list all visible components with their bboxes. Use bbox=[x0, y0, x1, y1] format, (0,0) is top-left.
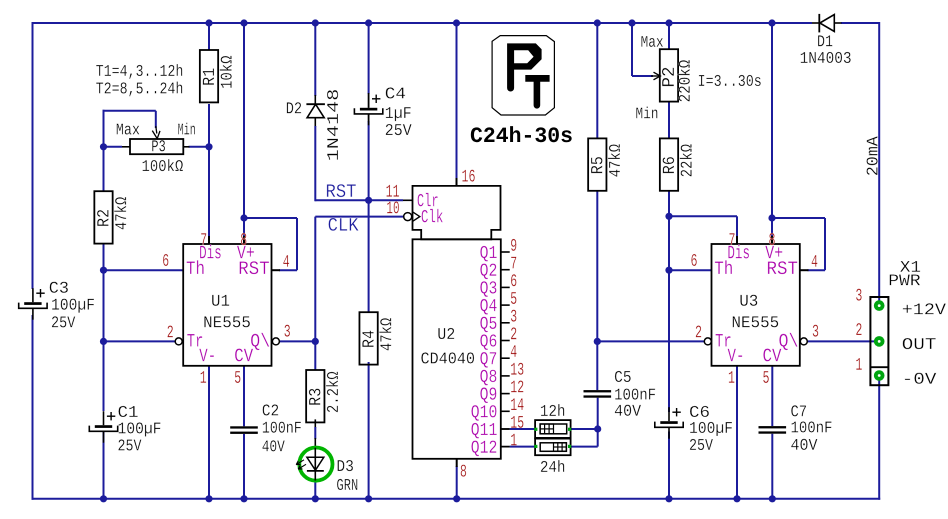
U2 pin number 15 bbox=[511, 416, 523, 428]
U3 pin number 7 bbox=[729, 233, 734, 245]
junction bbox=[594, 338, 601, 345]
U2 pin stub Q10 bbox=[501, 410, 510, 412]
U1 pin number 4 bbox=[283, 255, 289, 267]
U2 pin number 5 bbox=[511, 292, 517, 304]
U2 pin number 10 bbox=[387, 201, 399, 213]
U2 pin number 14 bbox=[511, 398, 524, 410]
X1 pin number 3 bbox=[856, 289, 862, 301]
LED D3 green ring bbox=[299, 448, 332, 481]
potentiometer P2 body bbox=[660, 49, 678, 101]
C2 voltage label bbox=[262, 440, 284, 451]
pin stub U1 pin8 bbox=[243, 236, 245, 244]
wire U3 pin8 V+ from top bus bbox=[771, 23, 773, 236]
wire +12V top bus right section after D1 bbox=[841, 22, 879, 24]
U1 pin label RST bbox=[240, 261, 269, 274]
capacitor C4 polarized symbol bbox=[368, 94, 370, 108]
resistor R3 name label bbox=[309, 389, 321, 405]
U2 pin label Q7 bbox=[480, 352, 496, 368]
wire C6 to 0V bus bbox=[668, 432, 670, 499]
U2 Clk wedge bbox=[413, 212, 420, 222]
U2 pin label Q12 bbox=[471, 441, 496, 457]
U2 pin number 13 bbox=[511, 363, 523, 375]
wire V+ to RST jog of U3 bbox=[772, 217, 825, 219]
label +12V bbox=[903, 303, 946, 314]
pin stub U2 Q11 pin15 bbox=[501, 428, 510, 430]
LED D3 arrows bbox=[296, 460, 304, 465]
capacitor C6 polarized symbol bbox=[668, 407, 670, 421]
diode D2 1N4148 symbol bbox=[306, 103, 325, 105]
U1 pin number 6 bbox=[163, 254, 168, 266]
wire R4 bottom to 0V bus bbox=[368, 362, 370, 499]
label 12h bbox=[541, 404, 564, 416]
counter U2 CD4040 top section bbox=[413, 186, 501, 239]
U3 pin label RST bbox=[768, 261, 797, 274]
wire R2 bottom to Th/Tr nodes and C1 bbox=[103, 244, 105, 412]
counter U2 CD4040 main body bbox=[413, 239, 501, 458]
label OUT bbox=[903, 338, 936, 349]
logo octagon frame bbox=[492, 36, 554, 115]
junction bbox=[594, 425, 601, 432]
wire P2 bottom to R6 bbox=[668, 102, 670, 139]
junction bbox=[205, 143, 212, 150]
wire U3 Th branch bbox=[669, 269, 712, 271]
U2 pin label Q10 bbox=[471, 405, 496, 421]
wire D1 left stub bbox=[812, 22, 819, 24]
D1 value label 1N4003 bbox=[801, 52, 851, 63]
C4 voltage label bbox=[386, 124, 412, 135]
U3 pin number 5 bbox=[763, 371, 769, 383]
U2 pin stub Q6 bbox=[501, 340, 510, 342]
C1 name label bbox=[118, 406, 137, 417]
U3 pin number 4 bbox=[812, 255, 818, 267]
C6 value label bbox=[690, 422, 732, 436]
P3 wiper arrow bbox=[156, 126, 157, 134]
note I=3..30s bbox=[699, 75, 761, 86]
capacitor C5 symbol bbox=[584, 390, 612, 392]
LED D3 wire through bbox=[314, 448, 316, 481]
resistor R2 value label bbox=[114, 197, 126, 229]
label -0V bbox=[905, 373, 936, 384]
U2 pin stub Q9 bbox=[501, 393, 510, 395]
U3 pin number 8 bbox=[769, 233, 774, 245]
pin stub U2 Clr pin11 bbox=[403, 199, 413, 201]
X1 name label bbox=[900, 261, 920, 272]
X1 pin number 1 bbox=[856, 358, 862, 370]
U2 pin stub Q7 bbox=[501, 357, 510, 359]
U2 pin label Q2 bbox=[480, 264, 496, 280]
U1 value label bbox=[204, 316, 250, 327]
jumper JP1 outer bottom cell bbox=[535, 439, 571, 456]
X1 value label PWR bbox=[890, 274, 921, 285]
C4 name label bbox=[386, 87, 405, 98]
U1 pin number 1 bbox=[201, 371, 207, 383]
capacitor C3 polarized symbol bbox=[32, 288, 34, 302]
junction bbox=[240, 214, 247, 221]
note T2 timing bbox=[96, 81, 182, 96]
wire 0V left rail below C3 bbox=[32, 315, 34, 500]
C5 voltage label bbox=[615, 405, 641, 416]
wire U1 pin5 to C2 bbox=[243, 366, 245, 427]
resistor R5 body bbox=[588, 138, 606, 190]
note T1 timing bbox=[96, 64, 182, 79]
wire C1 to 0V bus bbox=[103, 432, 105, 499]
resistor R1 body bbox=[200, 50, 218, 102]
D2 name label bbox=[287, 102, 301, 113]
wire C5 to jumper node bbox=[597, 398, 599, 429]
pin stub U3 RST pin4 bbox=[800, 269, 809, 271]
U1 pin label V+ bbox=[237, 246, 254, 259]
U1 pin number 8 bbox=[241, 233, 246, 245]
P3 Min label bbox=[178, 123, 195, 135]
junction bbox=[100, 267, 107, 274]
resistor R2 body bbox=[94, 191, 112, 243]
U2 pin stub Q2 bbox=[501, 269, 510, 271]
D2 value label 1N4148 rotated bbox=[327, 90, 338, 160]
C6 name label bbox=[690, 406, 709, 417]
C7 voltage label bbox=[791, 439, 817, 450]
wire V+ to RST jog of U1 bbox=[244, 217, 297, 219]
C5 value label bbox=[615, 388, 655, 399]
capacitor C2 symbol bbox=[230, 426, 258, 428]
wire D1 right stub bbox=[834, 22, 841, 24]
pin stub D2 anode bbox=[314, 118, 316, 127]
junction bbox=[769, 495, 776, 502]
pin stub U3 pin7 bbox=[736, 236, 738, 244]
junction bbox=[100, 143, 107, 150]
U2 pin number 4 bbox=[511, 345, 517, 357]
U2 pin number 12 bbox=[511, 380, 523, 392]
capacitor C7 symbol bbox=[759, 426, 787, 428]
wire +12V top bus left section bbox=[33, 22, 813, 24]
D3 value label GRN bbox=[337, 479, 357, 490]
U2 name label bbox=[438, 328, 454, 339]
U3 pin label CV bbox=[763, 349, 781, 362]
U2 pin number 16 bbox=[462, 170, 474, 182]
wire P2 top from bus bbox=[668, 23, 670, 49]
U2 pin stub Q11 bbox=[501, 428, 510, 430]
logo text C24h-30s bbox=[471, 126, 572, 142]
U2 pin number 9 bbox=[511, 239, 516, 251]
U2 pin label Q9 bbox=[480, 387, 496, 403]
jumper JP1 top inner bbox=[540, 424, 567, 434]
U2 pin number 1 bbox=[511, 434, 517, 446]
wire Q11 to jumper JP1 bbox=[510, 428, 535, 430]
connector X1 pad 2 bbox=[874, 336, 885, 347]
wire U3 Dis branch bbox=[669, 215, 737, 217]
U3 pin label Q\ bbox=[779, 333, 797, 350]
U2 pin label Q4 bbox=[480, 299, 496, 315]
P2 name label bbox=[662, 68, 674, 86]
resistor R1 name label bbox=[203, 68, 214, 84]
junction bbox=[665, 267, 672, 274]
junction bbox=[240, 19, 247, 26]
wire Tr node to C5 bbox=[596, 341, 598, 390]
U1 Q inversion circle bbox=[272, 338, 279, 345]
jumper JP1 12h/24h outer top cell bbox=[535, 420, 571, 438]
junction bbox=[240, 495, 247, 502]
resistor R6 name label bbox=[663, 157, 675, 173]
U3 pin label V- bbox=[728, 349, 743, 362]
note 20mA rotated bbox=[866, 136, 877, 175]
U3 pin number 1 bbox=[729, 371, 735, 383]
U1 Tr inversion circle bbox=[175, 338, 182, 345]
wire U3 pin1 to 0V bus bbox=[736, 366, 738, 499]
P2 Min label bbox=[636, 107, 657, 119]
pin stub U1 pin7 bbox=[208, 236, 210, 244]
C7 name label bbox=[791, 405, 806, 416]
wire CLK net vertical bbox=[314, 217, 316, 342]
U2 Clk inversion circle bbox=[404, 213, 412, 221]
wire Q12 to jumper JP1 bbox=[510, 446, 535, 448]
wire U3 Q output to X1 OUT bbox=[807, 340, 874, 342]
wire C2 to 0V bus bbox=[243, 434, 245, 499]
wire RST net to R4 bbox=[368, 200, 370, 312]
U3 pin label Tr bbox=[716, 334, 731, 347]
pin stub U2 pin16 bbox=[456, 178, 458, 186]
wire R2 top from P3 node bbox=[103, 147, 105, 191]
U1 pin number 7 bbox=[201, 233, 206, 245]
U2 pin label Q3 bbox=[480, 281, 496, 297]
wire U1 pin8 V+ from top bus bbox=[243, 23, 245, 236]
junction bbox=[628, 19, 635, 26]
wire jumper Q12 side to C5 node bbox=[571, 446, 598, 448]
wire U1 Q output to node bbox=[279, 340, 315, 342]
wire node to U1 pin7 bbox=[208, 147, 210, 236]
wire RST net horizontal bbox=[315, 199, 403, 201]
U2 pin stub Q12 bbox=[501, 446, 510, 448]
resistor R1 value label bbox=[220, 56, 232, 88]
C1 voltage label bbox=[118, 439, 141, 450]
wire D2 anode to RST net bbox=[314, 126, 316, 201]
pin stub P3 left bbox=[122, 146, 130, 148]
pin stub U3 pin8 bbox=[771, 236, 773, 244]
connector X1 pad 1 bbox=[874, 370, 885, 381]
pin stub U2 pin8 bbox=[456, 459, 458, 467]
LED D3 cathode bar bbox=[307, 470, 324, 472]
junction bbox=[453, 19, 460, 26]
resistor R5 name label bbox=[591, 157, 602, 173]
pin stub D2 cathode bbox=[314, 95, 316, 104]
U2 pin number 7 bbox=[511, 257, 516, 269]
logo letter T bbox=[525, 75, 549, 109]
resistor R6 body bbox=[660, 138, 678, 190]
wire R6 bottom down the R6 chain bbox=[668, 191, 670, 412]
U2 pin number 3 bbox=[511, 310, 517, 322]
U2 pin label Clr bbox=[418, 193, 438, 206]
connector X1 divider bbox=[870, 366, 888, 368]
U1 pin label V- bbox=[199, 349, 214, 362]
wire U1 Tr bbox=[104, 340, 176, 342]
wire 0V bottom bus bbox=[32, 498, 881, 500]
U1 pin label Th bbox=[187, 260, 204, 274]
U2 pin number 8 bbox=[461, 465, 466, 477]
U1 pin label Q\ bbox=[251, 333, 269, 350]
wire U3 pin5 to C7 bbox=[771, 366, 773, 426]
U2 pin label Q5 bbox=[480, 317, 496, 333]
P3 Max label bbox=[117, 124, 140, 135]
P2 value label 220k bbox=[678, 60, 690, 101]
wire jumper to C5 node bbox=[571, 428, 598, 430]
U3 Q inversion circle bbox=[800, 338, 807, 345]
U3 name label bbox=[740, 295, 757, 306]
pin stub U2 Q12 pin1 bbox=[501, 446, 510, 448]
label 24h bbox=[541, 460, 564, 472]
U3 pin label Th bbox=[715, 260, 732, 274]
U3 pin label V+ bbox=[765, 246, 782, 259]
U3 pin number 6 bbox=[691, 254, 696, 266]
U2 pin label Q11 bbox=[471, 423, 496, 439]
U2 pin stub Q3 bbox=[501, 286, 510, 288]
wire D2 top from bus bbox=[314, 23, 316, 96]
resistor R3 body bbox=[306, 370, 324, 422]
junction bbox=[365, 495, 372, 502]
U1 pin label CV bbox=[235, 349, 253, 362]
junction bbox=[365, 19, 372, 26]
wire U1 pin1 to 0V bus bbox=[208, 366, 210, 499]
wire C4 top from bus bbox=[368, 23, 370, 94]
jumper JP1 top hatch bbox=[540, 424, 553, 434]
potentiometer P3 body bbox=[130, 139, 183, 154]
junction bbox=[312, 19, 319, 26]
junction bbox=[100, 495, 107, 502]
wire 0V from X1 pin1 down bbox=[878, 380, 880, 500]
resistor R2 name label bbox=[97, 210, 108, 226]
wire R3 bottom to LED bbox=[314, 419, 316, 428]
U3 pin label Dis bbox=[728, 245, 749, 259]
connector X1 pad 3 bbox=[874, 300, 885, 311]
wire R3 top from Q node bbox=[314, 341, 316, 370]
X1 pin number 2 bbox=[856, 323, 861, 335]
C3 name label bbox=[50, 282, 68, 293]
wire +12V right rail down to X1 pin3 bbox=[878, 22, 880, 301]
C7 value label bbox=[792, 421, 832, 432]
P2 Max label bbox=[641, 36, 663, 47]
resistor R6 value label bbox=[680, 144, 692, 176]
U1 pin label Dis bbox=[200, 245, 221, 259]
wire U1 Th bbox=[104, 269, 184, 271]
wire R5 bottom to Tr node bbox=[596, 191, 598, 342]
pin stub P3 right bbox=[183, 146, 189, 148]
wire LED cathode to 0V bus bbox=[314, 481, 316, 499]
C2 value label bbox=[263, 422, 301, 433]
junction bbox=[312, 338, 319, 345]
wire R1 bottom to P3 node bbox=[208, 104, 210, 147]
wire P3 left terminal bbox=[104, 146, 123, 148]
op-amp timer U1 body bbox=[183, 244, 271, 366]
U3 Tr inversion circle bbox=[704, 338, 711, 345]
U3 pin number 2 bbox=[696, 325, 701, 337]
connector X1 body bbox=[870, 297, 888, 385]
U1 pin number 5 bbox=[235, 371, 241, 383]
U2 pin label Q6 bbox=[480, 334, 496, 350]
junction bbox=[768, 214, 775, 221]
junction bbox=[312, 495, 319, 502]
net label RST bbox=[327, 184, 356, 197]
jumper JP1 bottom inner bbox=[540, 443, 566, 452]
U3 pin number 3 bbox=[813, 325, 819, 337]
P2 wiper arrow bbox=[654, 72, 661, 80]
resistor R3 value label bbox=[326, 372, 338, 412]
U2 pin stub Q8 bbox=[501, 375, 510, 377]
U2 pin stub Q5 bbox=[501, 322, 510, 324]
U2 pin label Q1 bbox=[480, 246, 496, 262]
pin stub C4 plus bbox=[368, 93, 370, 108]
pin stub C4 minus bbox=[368, 114, 370, 122]
net label CLK bbox=[329, 218, 359, 231]
U1 pin number 3 bbox=[284, 325, 290, 337]
resistor R4 name label bbox=[362, 331, 373, 347]
U2 pin number 2 bbox=[511, 327, 516, 339]
junction bbox=[665, 213, 672, 220]
LED D3 triangle bbox=[307, 457, 324, 470]
junction bbox=[205, 495, 212, 502]
P3 name label bbox=[152, 140, 165, 151]
U1 name label bbox=[212, 295, 229, 306]
jumper pin dots green bbox=[534, 428, 537, 431]
wire R1 top bbox=[208, 23, 210, 50]
junction bbox=[768, 19, 775, 26]
D3 name label bbox=[338, 460, 353, 471]
C1 value label bbox=[119, 422, 161, 436]
C3 voltage label bbox=[52, 316, 75, 327]
C2 name label bbox=[263, 404, 279, 415]
U1 pin number 2 bbox=[168, 325, 173, 337]
jumper JP1 bottom hatch bbox=[554, 443, 567, 452]
wire C4 bottom to RST net bbox=[368, 121, 370, 200]
U2 pin label Clk bbox=[422, 209, 443, 222]
wire R5 top from bus bbox=[596, 23, 598, 138]
junction bbox=[665, 19, 672, 26]
pin stub U1 RST pin4 bbox=[272, 269, 281, 271]
P3 value label 100k bbox=[143, 159, 183, 171]
junction bbox=[733, 495, 740, 502]
wire P3 wiper up and over bbox=[155, 111, 157, 128]
resistor R4 value label bbox=[379, 318, 391, 350]
wire C7 to 0V bus bbox=[771, 434, 773, 499]
C4 value label bbox=[386, 107, 411, 121]
U2 pin label Q8 bbox=[480, 370, 496, 386]
junction bbox=[205, 19, 212, 26]
U2 pin number 6 bbox=[511, 274, 516, 286]
U3 value label bbox=[733, 316, 779, 327]
junction bbox=[453, 495, 460, 502]
wire U3 Tr net bbox=[597, 340, 704, 342]
junction bbox=[665, 495, 672, 502]
C5 name label bbox=[615, 371, 631, 382]
wire CLK net horizontal to U2 Clk bbox=[315, 216, 403, 218]
op-amp timer U3 body bbox=[712, 244, 800, 366]
U2 pin number 11 bbox=[386, 185, 399, 197]
resistor R5 value label bbox=[608, 144, 620, 176]
diode D1 1N4003 symbol bbox=[818, 14, 820, 33]
wire P3 right terminal bbox=[189, 146, 210, 148]
U2 pin stub Q1 bbox=[501, 251, 510, 253]
wire +12V left rail down to C3 bbox=[32, 22, 34, 289]
wire U2 pin8 to 0V bus bbox=[456, 466, 458, 499]
junction bbox=[100, 338, 107, 345]
C3 value label bbox=[52, 299, 94, 313]
U2 value label CD4040 bbox=[421, 352, 474, 363]
logo letter P bbox=[507, 43, 541, 91]
capacitor C1 polarized symbol bbox=[103, 411, 105, 425]
wire P2 wiper from bus bbox=[631, 23, 633, 76]
D1 name label bbox=[818, 35, 832, 46]
resistor R4 body bbox=[359, 312, 377, 364]
C6 voltage label bbox=[690, 439, 713, 450]
junction bbox=[365, 197, 372, 204]
U1 pin label Tr bbox=[187, 334, 202, 347]
U2 pin stub Q4 bbox=[501, 304, 510, 306]
